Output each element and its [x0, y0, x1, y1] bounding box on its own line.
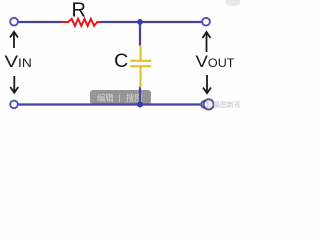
arrow up right — [203, 32, 211, 52]
arrow down right — [203, 75, 211, 93]
svg-text:|: | — [119, 94, 121, 103]
terminal node top-left — [10, 18, 18, 26]
arrow down left — [10, 76, 18, 93]
wire capacitor branch lower (blue) — [139, 87, 141, 105]
junction dot bottom — [137, 102, 143, 108]
svg-text:C: C — [114, 50, 128, 72]
resistor R — [61, 19, 101, 26]
svg-text:摄图新视界: 摄图新视界 — [213, 100, 240, 109]
terminal node bottom-left — [10, 101, 18, 109]
watermark logo ring bottom-right — [204, 99, 214, 109]
faint corner smudge top-right — [225, 0, 241, 6]
arrow up left — [10, 32, 18, 48]
watermark box 编辑|搜图 — [90, 90, 151, 105]
terminal node top-right — [202, 18, 210, 26]
svg-text:编辑: 编辑 — [97, 93, 114, 103]
terminal node bottom-right — [201, 101, 208, 108]
capacitor C — [130, 45, 151, 88]
junction dot top — [137, 19, 143, 25]
wire top left segment — [18, 21, 63, 23]
wire top right segment — [100, 21, 203, 23]
wire bottom — [18, 103, 203, 105]
wire capacitor branch upper (blue) — [139, 22, 141, 46]
svg-text:R: R — [71, 0, 85, 21]
